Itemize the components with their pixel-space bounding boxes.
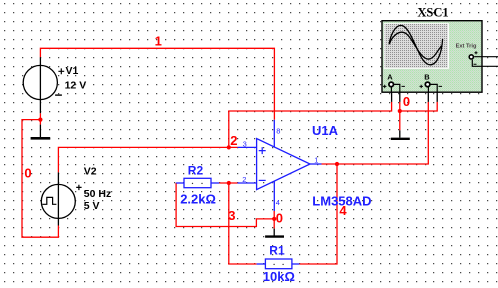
voltage source V1 [23,57,86,113]
wire net2 V2 top to op-amp +input [58,147,237,172]
svg-text:U1A: U1A [312,123,339,138]
pin 3 [238,146,257,148]
wire net3 R2 right to -input [219,182,237,184]
scope screen [384,23,449,69]
resistor R2 [176,163,219,206]
wire net0 scope A- and B- to ground [400,102,437,130]
voltage source V2 square wave [41,165,111,225]
wire net0 op-amp pin4 to ground [273,211,275,229]
junction below V1 [38,118,42,122]
Ext Trig terminal [469,55,473,59]
svg-text:0: 0 [403,94,410,109]
wire net3 -input junction down to R1 left [229,183,257,264]
waveform trace outer [389,25,442,64]
svg-text:V1: V1 [66,65,79,77]
wire net0 V1 bottom to ground [39,113,41,124]
scope pin stub B- [436,92,438,102]
pin 8 [273,120,275,147]
svg-text:V2: V2 [84,165,97,177]
svg-text:R2: R2 [188,163,204,177]
wire net4 output junction down to R1 right [299,164,337,264]
svg-text:0: 0 [24,165,31,180]
wire net2 +input junction up to scope A+ [229,102,392,147]
oscilloscope XSC1 [382,5,498,92]
svg-text:R1: R1 [269,243,285,257]
ground below pin4 [265,229,284,237]
waveform trace inner [389,32,441,59]
svg-text:1: 1 [155,33,162,48]
svg-text:A: A [387,73,393,82]
junction at -input [227,181,231,185]
scope pin stub A- [399,92,401,102]
svg-text:4: 4 [276,198,280,207]
scope pin stub A+ [391,92,393,102]
svg-text:2: 2 [242,175,246,184]
svg-text:Ext Trig: Ext Trig [456,44,477,50]
svg-text:10kΩ: 10kΩ [263,269,295,284]
junction at scope ground [398,109,402,113]
svg-text:1: 1 [314,156,318,165]
ground below scope [391,130,410,139]
resistor R1 [257,243,300,283]
svg-text:12 V: 12 V [65,79,87,91]
junction at output [335,162,339,166]
wire net0 R2 left to pin4 ground junction [176,183,274,227]
junction at +input [227,145,231,149]
svg-text:XSC1: XSC1 [417,5,448,19]
wire net1 V1 top to op-amp pin8 [40,48,274,120]
scope pin stub B+ [427,92,429,102]
wire net0 V1 junction to V2 bottom [22,120,58,238]
svg-text:3: 3 [228,208,235,223]
svg-text:B: B [424,73,430,82]
junction at pin4 ground [272,217,276,221]
op-amp U1A [238,120,372,211]
wire net4 op-amp output to scope B+ [322,102,429,164]
svg-text:50 Hz: 50 Hz [84,188,111,200]
svg-text:2: 2 [230,133,237,148]
pin 4 [273,181,275,211]
svg-text:8: 8 [276,126,280,135]
pin 1 [310,163,322,165]
scope body [382,21,482,93]
svg-text:5 V: 5 V [84,200,100,212]
pin 2 [238,182,257,184]
svg-text:LM358AD: LM358AD [312,194,371,209]
svg-text:3: 3 [243,139,247,148]
svg-text:2.2kΩ: 2.2kΩ [180,191,216,206]
svg-text:0: 0 [276,210,283,225]
ground below V1 [31,125,51,139]
